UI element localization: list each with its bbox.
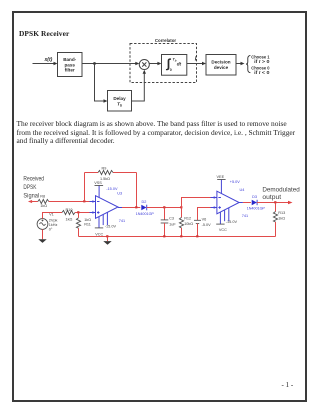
svg-text:DPSK: DPSK [23, 184, 36, 191]
svg-text:Demodulated: Demodulated [262, 186, 300, 193]
svg-text:0°: 0° [49, 227, 53, 231]
svg-text:1kΩ: 1kΩ [40, 204, 47, 208]
svg-text:D3: D3 [252, 195, 257, 199]
resistor R11 [76, 218, 80, 229]
multiplier X [139, 59, 149, 69]
label C3 [169, 217, 174, 221]
wire decision device to output brace [236, 62, 245, 65]
label 1uF (C3) [169, 222, 176, 226]
svg-text:741: 741 [119, 219, 125, 223]
svg-text:dt: dt [177, 61, 182, 66]
wire U4 output to D3 [243, 202, 251, 204]
svg-text:1uF: 1uF [169, 222, 176, 226]
svg-text:Decision: Decision [211, 60, 230, 65]
wire R13 to rail [275, 222, 277, 237]
svg-text:D2: D2 [142, 200, 147, 204]
pin U3 inverting input [90, 200, 96, 203]
label 1kohm (R11) [84, 218, 91, 222]
svg-text:R9: R9 [102, 166, 107, 170]
svg-text:if l > 0: if l > 0 [254, 59, 270, 64]
page number [282, 381, 294, 389]
junction C3 tap [163, 206, 165, 208]
junction R13 tap [274, 201, 276, 203]
label 1kohm (R8) [40, 204, 47, 208]
svg-text:-15.0V: -15.0V [106, 187, 118, 191]
resistor R9 [98, 170, 113, 174]
label R9 [102, 166, 107, 170]
label 741 (U4) [242, 214, 248, 218]
label 10kohm (R12) [184, 222, 193, 226]
label 15.0V (U3 bottom supply) [105, 225, 117, 229]
block band-pass filter [58, 53, 83, 77]
label Demodulated output [262, 186, 300, 201]
svg-text:V1: V1 [49, 213, 54, 217]
svg-text:R10: R10 [66, 208, 73, 212]
resistor R10 [62, 210, 75, 214]
wire V1 bottom to ground [42, 229, 44, 239]
svg-text:pass: pass [64, 62, 75, 67]
op-amp U4 [217, 191, 239, 214]
wire junction down to R11 [78, 213, 80, 218]
label R8 [40, 194, 45, 198]
svg-text:1kHz: 1kHz [49, 223, 58, 227]
svg-text:-5.0V: -5.0V [202, 223, 212, 227]
svg-text:R13: R13 [278, 211, 285, 215]
diode D2 [141, 205, 146, 211]
pin U3 non-inverting input [90, 211, 96, 214]
label V1 [49, 213, 54, 217]
wire band-pass filter to multiplier [82, 62, 139, 65]
node x(t) input label [44, 57, 53, 63]
label correlator [155, 38, 177, 43]
label 1kohm (R10) [66, 217, 73, 221]
label Received DPSK Signal [23, 176, 44, 200]
wire delay block up to multiplier [132, 70, 147, 101]
svg-text:VCC: VCC [219, 228, 227, 232]
svg-text:10kΩ: 10kΩ [184, 222, 193, 226]
svg-text:if l < 0: if l < 0 [254, 70, 270, 75]
source V1 [37, 219, 48, 230]
diode D3 [252, 200, 257, 205]
wire integrator to decision device, node l [187, 57, 206, 65]
junction feedback on output [135, 206, 137, 208]
output terminal arrow [288, 201, 293, 204]
svg-text:device: device [214, 65, 229, 70]
label V6 [202, 218, 207, 222]
wire input arrow into band-pass filter [33, 62, 58, 65]
wire C3 top lead [164, 208, 166, 220]
ground (V1) [38, 239, 46, 243]
capacitor C3 [161, 220, 169, 223]
svg-text:-15.0V: -15.0V [226, 220, 238, 224]
svg-text:C3: C3 [169, 217, 174, 221]
junction rail at R12 [180, 235, 182, 237]
label R10 [66, 208, 73, 212]
power VEE (U4 top) [217, 175, 226, 179]
title [19, 29, 69, 38]
svg-text:x(t): x(t) [44, 57, 53, 63]
wire R8 to op-amp U3 inverting input [49, 201, 90, 203]
svg-text:R11: R11 [84, 223, 91, 227]
svg-text:0: 0 [170, 68, 172, 72]
resistor R12 [179, 217, 183, 228]
label 1kohm (R13) [278, 217, 285, 221]
svg-text:Signal: Signal [23, 193, 39, 200]
block delay Tb [108, 91, 132, 112]
wire V6 to U4 non-inverting input [198, 208, 211, 221]
svg-text:output: output [262, 194, 281, 201]
wire D2 to C3/R12 node [147, 207, 182, 209]
power VCC (U4 bottom) [216, 224, 227, 232]
svg-text:2Vpk: 2Vpk [49, 218, 58, 222]
label choose 1 if l > 0 [251, 54, 270, 64]
label 2Vpk 1kHz 0deg (V1) [49, 218, 58, 231]
label +5.0V (U4 top supply) [230, 180, 240, 184]
svg-text:filter: filter [65, 68, 75, 73]
battery V6 [194, 220, 201, 223]
label -15.0V (U3 top supply) [106, 187, 118, 191]
svg-text:Correlator: Correlator [155, 38, 177, 43]
pin U4 inverting input [211, 196, 217, 199]
svg-text:1kΩ: 1kΩ [66, 217, 73, 221]
pin U4 non-inverting input [211, 206, 217, 209]
paragraph line 1 [17, 119, 287, 128]
ground (rail) [103, 241, 111, 245]
svg-text:Received: Received [23, 176, 44, 183]
label R11 [84, 223, 91, 227]
wire multiplier to integrator [149, 62, 161, 65]
junction R12 tap [180, 206, 182, 208]
svg-text:VSS: VSS [94, 181, 102, 185]
label 5.0V (V6) [202, 223, 212, 227]
input terminal arrow [28, 200, 32, 203]
wire ground rail [79, 236, 276, 238]
dashed correlator box [130, 44, 197, 83]
label U3 [117, 192, 122, 196]
junction rail at V6 [196, 235, 198, 237]
wire V1 top to R10 [43, 213, 63, 219]
wire R12 to rail [181, 228, 183, 237]
wire ground stub [107, 237, 109, 242]
svg-text:+5.0V: +5.0V [230, 180, 240, 184]
svg-text:1N4001GP: 1N4001GP [136, 212, 155, 216]
label 1N4001GP (D2) [136, 212, 155, 216]
label D3 [252, 195, 257, 199]
op-amp U3 [96, 196, 119, 219]
wire R11 to ground rail [78, 228, 80, 236]
wire node to U4 inverting input [182, 198, 211, 208]
block integrator [162, 55, 187, 76]
pin U3 offset/supply stubs (bottom) [99, 212, 107, 228]
label D2 [142, 200, 147, 204]
power VCC (U3 bottom) [95, 228, 104, 236]
wire R13 top lead [275, 203, 277, 212]
wire V6 bottom to rail [197, 224, 199, 237]
label U4 [240, 188, 245, 192]
pin U4 offset/supply stubs (bottom) [220, 208, 228, 224]
junction feedback tap [83, 200, 85, 202]
wire R10 to op-amp U3 non-inverting input [75, 212, 90, 214]
wire feedback top run [85, 172, 137, 174]
label choose 0 if l < 0 [251, 66, 270, 76]
svg-text:VEE: VEE [217, 175, 225, 179]
svg-text:V6: V6 [202, 218, 207, 222]
pin U4 output [239, 202, 243, 204]
junction rail at ground stub [106, 235, 108, 237]
wire feedback riser [84, 173, 86, 202]
svg-text:741: 741 [242, 214, 248, 218]
svg-text:R12: R12 [184, 217, 191, 221]
wire feedback down riser to output node [136, 173, 138, 208]
resistor R8 [38, 199, 49, 203]
junction rail at C3 [163, 235, 165, 237]
svg-text:R8: R8 [40, 194, 45, 198]
pin U3 positive supply [98, 186, 100, 198]
wire input to R8 [32, 201, 38, 203]
resistor R13 [273, 212, 277, 223]
pin U3 output [118, 207, 122, 209]
label 741 (U3) [119, 219, 125, 223]
power VSS (U3 top) [94, 181, 103, 185]
label 15.0V (U4 bottom supply) [226, 220, 238, 224]
svg-text:U3: U3 [117, 192, 122, 196]
svg-text:1kΩ: 1kΩ [84, 218, 91, 222]
paragraph line 3 [17, 136, 115, 145]
wire D3 to output terminal [257, 202, 290, 204]
junction on BPF output [93, 62, 96, 65]
label R12 [184, 217, 191, 221]
svg-text:b: b [120, 104, 122, 108]
wire R12 top lead [181, 208, 183, 218]
pin U4 positive supply [220, 180, 222, 194]
svg-text:1kΩ: 1kΩ [278, 217, 285, 221]
label R13 [278, 211, 285, 215]
svg-text:U4: U4 [240, 188, 245, 192]
block decision device [206, 55, 236, 76]
svg-text:Band-: Band- [63, 57, 76, 62]
svg-text:-15.0V: -15.0V [105, 225, 117, 229]
wire U3 output to D2 [122, 207, 140, 209]
svg-text:1N4001GP: 1N4001GP [247, 206, 266, 210]
svg-text:Delay: Delay [113, 96, 126, 101]
wire junction down to delay block [95, 64, 108, 103]
junction R11 tap [77, 211, 79, 213]
label 1.5kohm (R9) [100, 177, 110, 181]
wire C3 bottom lead [164, 223, 166, 237]
output brace [246, 55, 250, 72]
label 1N4001GP (D3) [247, 206, 266, 210]
paragraph line 2 [17, 128, 296, 137]
svg-text:VCC: VCC [95, 232, 103, 236]
